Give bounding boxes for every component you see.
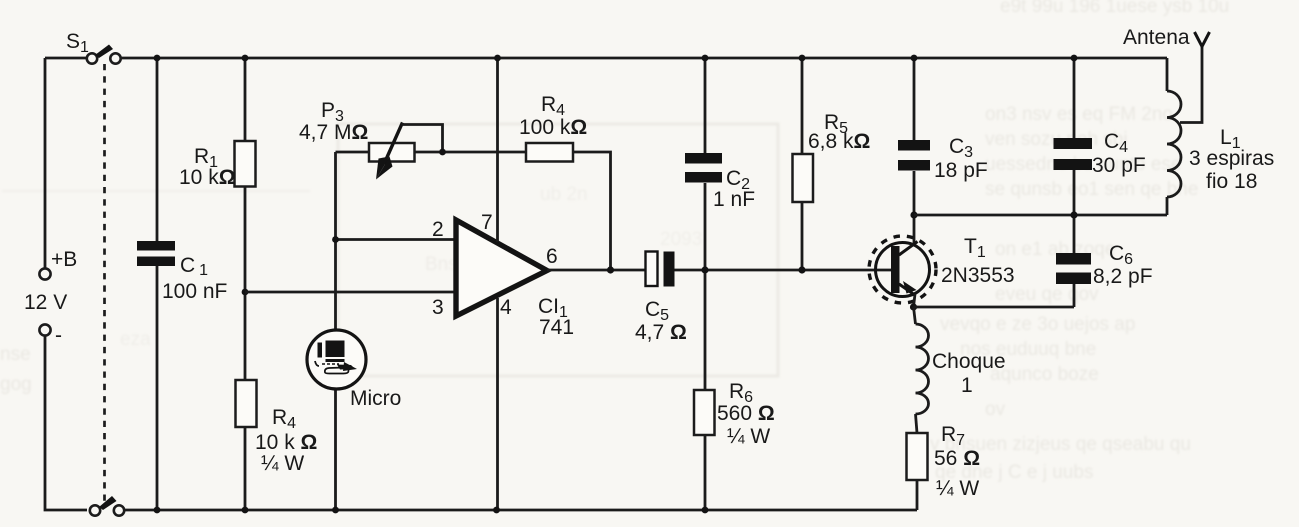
svg-text:12 V: 12 V (24, 291, 67, 314)
wire: tank node horizontal to L1 (914, 214, 1167, 217)
svg-text:6,8 kΩ: 6,8 kΩ (808, 130, 870, 153)
wire: left vertical from - terminal to bottom rail (45, 336, 87, 510)
wire: pin 3 input (245, 291, 456, 294)
junction dot emitter node (910, 303, 917, 310)
junction dot top rail / C2 (702, 55, 709, 62)
svg-text:se qunsb eo1 sen qe bne: se qunsb eo1 sen qe bne (985, 179, 1198, 200)
svg-text:6: 6 (546, 245, 558, 268)
svg-text:e9t 99u 196 1uese ysb 10u: e9t 99u 196 1uese ysb 10u (1000, 0, 1229, 17)
junction dot top rail / C4 (1071, 55, 1078, 62)
capacitor C3 (898, 140, 930, 171)
svg-text:2093: 2093 (660, 229, 702, 250)
P3 wiper loop wire (402, 125, 443, 153)
potentiometer P3 body (369, 143, 415, 162)
resistor R5 (793, 154, 814, 202)
svg-text:3 espiras: 3 espiras (1189, 147, 1274, 170)
wire: P3 left leg and micro branch vertical (334, 152, 337, 510)
svg-text:8,2 pF: 8,2 pF (1093, 265, 1153, 288)
svg-text:¼ W: ¼ W (936, 477, 979, 500)
svg-text:100 kΩ: 100 kΩ (519, 116, 587, 139)
wire: C4/C6 branch vertical (1073, 58, 1076, 307)
svg-text:560 Ω: 560 Ω (717, 402, 775, 425)
svg-text:10 kΩ: 10 kΩ (179, 166, 236, 189)
wire: C5 to transistor base (675, 269, 892, 272)
wire: bottom ground rail (124, 509, 917, 512)
junction dot top rail / pin7 (494, 55, 501, 62)
capacitor C6 (1056, 253, 1091, 284)
resistor R4 (bottom) (236, 380, 257, 427)
junction dot top rail / C3 (911, 55, 918, 62)
wire: P3 left horizontal (336, 151, 370, 154)
wire: C3/collector branch vertical (913, 58, 916, 243)
svg-text:30 pF: 30 pF (1092, 154, 1146, 177)
junction dot bottom rail / R4 (242, 507, 249, 514)
wire: R1/R4 branch vertical (244, 58, 247, 510)
antenna tap wire (1180, 47, 1202, 123)
wire: pin 2 input (336, 238, 457, 241)
junction dot collector node (910, 211, 917, 218)
wire: pin 7 to top rail (496, 58, 499, 242)
svg-text:7: 7 (481, 211, 493, 234)
svg-text:-: - (55, 324, 62, 347)
wire: C1 branch vertical (156, 58, 159, 510)
svg-text:vevqo e ze 3o uejos ap: vevqo e ze 3o uejos ap (940, 314, 1135, 335)
battery - terminal (39, 324, 50, 335)
junction dot bottom rail / pin4 (493, 507, 500, 514)
svg-text:ov: ov (985, 399, 1006, 420)
wire: choke to R7 (916, 414, 918, 433)
svg-text:nse: nse (0, 344, 31, 365)
P3 wiper arrow (376, 123, 403, 180)
wire: op-amp output (547, 269, 645, 272)
junction dot signal wire / R5 (798, 266, 805, 273)
wire: left vertical from top rail corner to +B terminal (45, 58, 87, 268)
junction dot P3 right (439, 149, 446, 156)
capacitor C5 (646, 252, 675, 287)
svg-text:+B: +B (51, 248, 77, 271)
svg-text:2N3553: 2N3553 (941, 264, 1015, 287)
svg-text:gog: gog (0, 374, 32, 395)
svg-text:1: 1 (961, 374, 973, 397)
capacitor C1 (137, 241, 175, 266)
svg-text:4,7 Ω: 4,7 Ω (635, 321, 687, 344)
svg-text:18 pF: 18 pF (934, 159, 988, 182)
svg-text:¼ W: ¼ W (261, 452, 304, 475)
svg-text:Micro: Micro (350, 387, 401, 410)
svg-text:741: 741 (539, 316, 574, 339)
wire: emitter node to C6 bottom (914, 306, 1075, 309)
antenna symbol (1195, 32, 1210, 47)
junction dot top rail / R5 (799, 55, 806, 62)
op-amp CI1 741 (456, 220, 547, 316)
resistor R4 (feedback) (526, 143, 573, 162)
wire: C2/R6 branch vertical (704, 58, 707, 510)
transistor T1 (869, 236, 936, 303)
junction dot bottom rail / C1 (154, 507, 161, 514)
junction dot R1-R4 / pin3 wire (242, 289, 249, 296)
capacitor C2 (685, 153, 722, 183)
svg-text:on3 nsv es eq FM 2no: on3 nsv es eq FM 2no (985, 104, 1173, 125)
junction dot signal wire / C2-R6 (701, 266, 708, 273)
svg-text:4: 4 (500, 296, 512, 319)
switch S1 (top pole) (87, 45, 121, 64)
svg-text:100 nF: 100 nF (162, 280, 227, 303)
svg-text:2: 2 (432, 218, 444, 241)
wire: R4 right to output junction (573, 152, 611, 270)
svg-text:Choque: Choque (932, 350, 1006, 373)
coil L1 (1167, 58, 1181, 215)
junction dot pin2 / P3 leg (332, 236, 339, 243)
svg-text:on e1 ab zoqe: on e1 ab zoqe (995, 239, 1115, 260)
svg-text:eza: eza (120, 329, 151, 350)
junction dot tank wire / C4-C6 (1070, 211, 1077, 218)
choke inductor Choque 1 (914, 307, 929, 414)
svg-text:ub 2n: ub 2n (540, 184, 588, 205)
wire: pin 4 to bottom rail (496, 298, 499, 510)
svg-text:1 nF: 1 nF (713, 188, 755, 211)
wire: R7 to bottom rail (916, 480, 919, 510)
svg-text:aqunco boze: aqunco boze (990, 364, 1099, 385)
svg-text:10 k Ω: 10 k Ω (255, 431, 317, 454)
junction dot bottom rail / R6 (702, 507, 709, 514)
junction dot bottom rail / micro (332, 507, 339, 514)
svg-text:56 Ω: 56 Ω (934, 447, 980, 470)
junction dot top rail / R1 (242, 55, 249, 62)
resistor R1 (235, 141, 256, 187)
capacitor C4 (1054, 138, 1093, 170)
wire: top supply rail (120, 57, 1167, 60)
switch S1 (bottom pole) (90, 496, 124, 516)
svg-text:Antena: Antena (1123, 26, 1190, 49)
svg-text:eveu qe qov: eveu qe qov (995, 284, 1099, 305)
battery +B terminal (39, 268, 50, 279)
resistor R7 (907, 433, 928, 480)
wire: R5 branch vertical (801, 58, 804, 270)
svg-text:3: 3 (432, 296, 444, 319)
svg-text:4,7 MΩ: 4,7 MΩ (299, 121, 368, 144)
junction dot output / feedback (607, 266, 614, 273)
wire: P3 right to R4 (415, 151, 527, 154)
svg-text:fio 18: fio 18 (1206, 170, 1257, 193)
resistor R6 (694, 390, 715, 435)
svg-text:¼ W: ¼ W (727, 425, 770, 448)
junction dot top rail / C1 (154, 55, 161, 62)
wire: emitter to junction (914, 294, 916, 307)
dashed gang link of S1 (103, 64, 106, 501)
microphone Micro (307, 330, 366, 389)
